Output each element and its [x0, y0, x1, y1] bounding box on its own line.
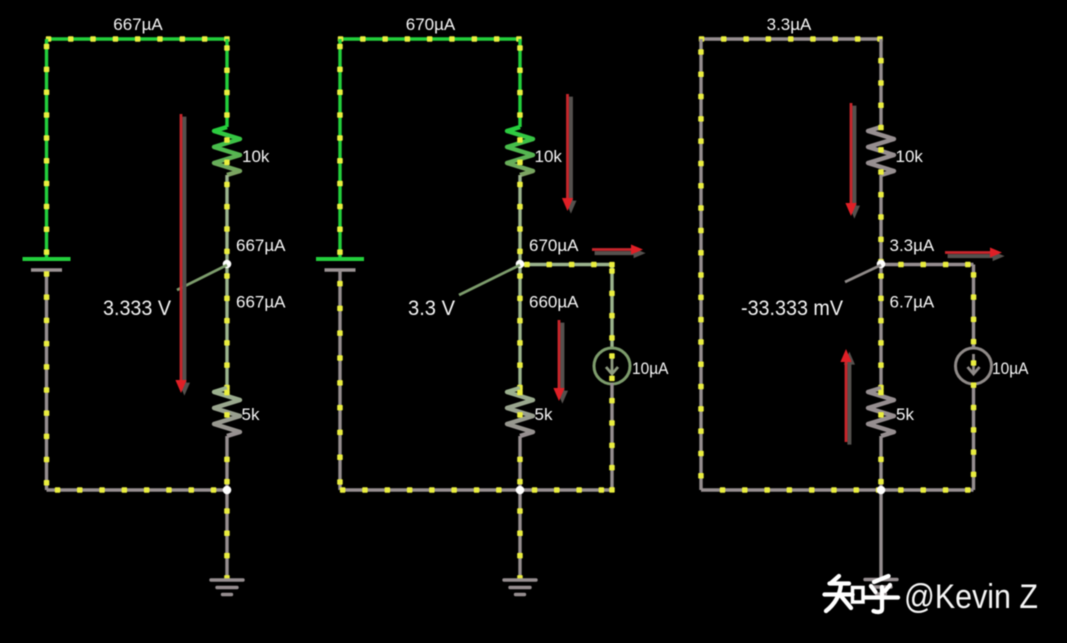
- wire: C1 top horizontal (10V): [47, 37, 228, 40]
- current arrow C2 through 10k: [565, 97, 576, 214]
- label line to -33mV node: [845, 265, 881, 282]
- svg-text:5k: 5k: [242, 405, 260, 424]
- wire: C2 right vertical upper (10V): [518, 39, 521, 127]
- wire: C2 branch vertical above current source (3.3V): [610, 265, 613, 350]
- node: C1 bottom junction: [223, 486, 232, 495]
- wire: C2 node to branch horizontal (3.3V): [520, 263, 612, 266]
- svg-text:667µA: 667µA: [113, 15, 163, 34]
- svg-text:3.333 V: 3.333 V: [103, 296, 172, 320]
- resistor R1 10k: [0, 0, 1, 1]
- node: C2 bottom junction: [516, 486, 525, 495]
- wire: C3 below 5k: [879, 436, 882, 490]
- wire: C3 between 10k and node: [879, 175, 882, 264]
- current arrow C2 branch to right: [595, 248, 646, 258]
- ground symbol C3: [865, 578, 897, 581]
- label line to 3.333V node: [177, 265, 227, 290]
- wire: C1 below 5k (0V): [225, 436, 228, 490]
- wire: C1 left vertical lower (0V): [45, 270, 48, 490]
- wire: C2 left vertical upper (10V): [338, 39, 341, 259]
- wire: C2 bottom horizontal (0V): [340, 488, 612, 491]
- svg-text:5k: 5k: [896, 405, 914, 424]
- svg-text:3.3µA: 3.3µA: [767, 15, 812, 34]
- voltage source V1 10V battery: [23, 257, 71, 261]
- svg-text:667µA: 667µA: [236, 293, 286, 312]
- wire: C3 right vertical upper: [879, 39, 882, 127]
- wire: C3 left vertical: [699, 39, 702, 490]
- resistor R3 10k: [0, 0, 1, 1]
- watermark: zhihu logo text 知: [825, 576, 864, 611]
- resistor R2 5k: [0, 0, 1, 1]
- wire: C3 node to branch horizontal: [881, 263, 974, 266]
- wire: C1 left vertical upper (10V): [45, 39, 48, 259]
- wire: C1 between 10k and node (3.33V): [225, 175, 228, 264]
- svg-text:10k: 10k: [242, 147, 270, 166]
- svg-text:@Kevin Z: @Kevin Z: [904, 578, 1038, 616]
- current arrow C3 through 5k (up): [844, 352, 855, 445]
- wire: C2 node to 5k (3.3V): [518, 264, 521, 388]
- svg-text:10k: 10k: [535, 147, 563, 166]
- current source I1 10uA: [594, 348, 630, 384]
- svg-text:10k: 10k: [896, 147, 924, 166]
- node: C2 mid node 3.3V: [516, 260, 525, 269]
- wire: C3 bottom horizontal: [701, 488, 974, 491]
- svg-text:-33.333 mV: -33.333 mV: [741, 296, 844, 320]
- label line to 3.3V node: [459, 265, 520, 295]
- current arrow C3 through 10k: [849, 106, 860, 219]
- svg-text:3.3 V: 3.3 V: [408, 296, 456, 320]
- current arrow C3 branch to right: [948, 251, 1005, 261]
- svg-text:5k: 5k: [535, 405, 553, 424]
- resistor R4 5k: [0, 0, 1, 1]
- node: C3 bottom junction: [877, 486, 886, 495]
- ground symbol C2: [504, 578, 536, 581]
- wire: C3 branch vertical above current source: [972, 265, 975, 350]
- resistor R5 10k: [0, 0, 1, 1]
- svg-text:10µA: 10µA: [632, 359, 669, 378]
- svg-text:667µA: 667µA: [236, 236, 286, 255]
- ground symbol C1: [211, 578, 243, 581]
- wire: C2 ground stub: [518, 490, 521, 580]
- watermark: zhihu logo text 乎: [864, 576, 898, 612]
- resistor R6 5k: [0, 0, 1, 1]
- wire: C3 ground stub (no current): [879, 490, 882, 579]
- wire: C2 branch vertical below current source (0V): [610, 383, 613, 490]
- current source I2 10uA: [956, 348, 992, 384]
- voltage source V2 10V battery: [316, 257, 364, 261]
- wire: C3 top horizontal: [701, 37, 881, 40]
- wire: C2 between 10k and node (3.3V): [518, 175, 521, 264]
- wire: C3 node to 5k: [879, 264, 882, 388]
- svg-text:10µA: 10µA: [992, 359, 1029, 378]
- node: C3 mid node: [877, 260, 886, 269]
- wire: C1 bottom horizontal (0V): [47, 488, 228, 491]
- wire: C2 left vertical lower (0V): [338, 270, 341, 490]
- svg-text:3.3µA: 3.3µA: [890, 236, 935, 255]
- svg-text:670µA: 670µA: [406, 15, 456, 34]
- node: C1 mid node 3.33V: [223, 260, 232, 269]
- svg-text:660µA: 660µA: [529, 293, 579, 312]
- svg-text:670µA: 670µA: [529, 236, 579, 255]
- current arrow C1 (through resistors): [179, 117, 190, 396]
- wire: C1 node to 5k (3.33V): [225, 264, 228, 388]
- current arrow C2 through 5k: [557, 323, 568, 404]
- wire: C1 ground stub: [225, 490, 228, 580]
- wire: C2 top horizontal (10V): [340, 37, 520, 40]
- wire: C2 below 5k (0V): [518, 436, 521, 490]
- svg-text:6.7µA: 6.7µA: [890, 293, 935, 312]
- wire: C1 right vertical upper (10V): [225, 39, 228, 127]
- wire: C3 branch vertical below current source: [972, 383, 975, 490]
